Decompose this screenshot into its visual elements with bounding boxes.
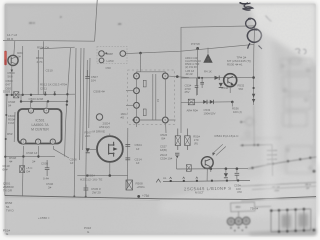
ladder node dots: [270, 208, 315, 233]
resistor C506 crosshatch below IC: [20, 166, 25, 173]
label R532: [222, 84, 245, 92]
wire long bottom: [5, 196, 316, 200]
wire mid-left bus D: [83, 48, 84, 150]
pen scribble top: [240, 3, 253, 9]
wire row2 y102: [181, 101, 232, 104]
ladder winding blobs: [282, 214, 292, 228]
warning triangle: [203, 54, 212, 63]
page curl highlight streak: [259, 18, 278, 202]
connector J dashed box: [97, 47, 127, 64]
wire top-left link: [40, 47, 75, 49]
label C528: [185, 83, 192, 94]
pencil 239: [295, 49, 306, 54]
ghost line: [240, 137, 282, 140]
diode D54: [203, 100, 207, 104]
wire Q500 up: [14, 41, 15, 56]
diode D55: [210, 100, 214, 104]
wire pin4 riser: [46, 102, 48, 108]
junction node: [139, 52, 142, 55]
resistor R502 crosshatch: [14, 92, 19, 98]
wire bus x38.3: [37, 50, 39, 95]
pin P2: [120, 51, 126, 57]
transformer ladder box: [271, 209, 311, 232]
coil L1 marks: [143, 80, 146, 87]
node on row: [198, 77, 200, 79]
dashed pointer arrow: [213, 144, 226, 155]
wire mid-left bus A: [65, 48, 71, 157]
junction dots row y101.5: [20, 100, 68, 106]
resistor R533 crosshatch: [188, 99, 194, 105]
fold crease faint: [5, 197, 160, 200]
junction dots: [210, 168, 213, 171]
wire Q530 emitter down: [229, 87, 231, 93]
capacitor C507: [85, 70, 89, 78]
ghost text 237: [290, 59, 300, 64]
wire Q500 collector down: [11, 66, 13, 95]
wire bus x22.7: [22, 46, 24, 95]
pin 2: [29, 108, 34, 113]
pin numbers: [23, 109, 54, 144]
wire mid-left bus E: [86, 60, 88, 197]
pin 4: [44, 108, 49, 113]
capacitor bank bars: [267, 150, 277, 163]
wire mid-left bus C: [80, 48, 81, 160]
pencil squiggle: [266, 16, 272, 22]
transistor Q500: [8, 55, 18, 65]
diode D56: [224, 173, 228, 177]
pen tick: [259, 46, 263, 50]
caution text block: [185, 56, 201, 69]
connector pin L2: [134, 88, 140, 94]
transistor Q530: [224, 74, 237, 87]
pin 1: [21, 139, 26, 144]
square junction nodes: [170, 180, 239, 183]
resistor R518 crosshatch: [175, 129, 180, 151]
connector pin L4: [134, 117, 140, 123]
diode D52: [215, 76, 220, 80]
arrows on right bus: [252, 94, 255, 98]
junction dots left vertical: [5, 114, 7, 116]
IC U IC501 box: [18, 109, 62, 144]
pin P3: [99, 58, 104, 63]
ground mark: [156, 179, 160, 182]
resistor R528 box: [126, 180, 133, 190]
ghost dots: [282, 65, 312, 170]
wire triangle riser: [207, 48, 209, 54]
capacitor C545: [84, 185, 89, 197]
node after R1: [176, 75, 179, 78]
wire left edge vertical: [5, 95, 7, 196]
wire x21 stub: [20, 95, 22, 102]
fold bright wedge bottom-right: [160, 163, 320, 219]
wire top vertical: [95, 0, 98, 41]
pen circle 2: [247, 29, 261, 42]
wire main row y77.8: [181, 76, 254, 79]
diode D53 down: [219, 83, 223, 87]
box outline: [231, 202, 255, 212]
wire row y181 with square nodes: [163, 181, 250, 182]
small dots below trio: [230, 226, 247, 231]
wire pin3 down: [37, 146, 39, 158]
junction node C534: [196, 47, 199, 50]
arrow on Q500 emitter: [11, 70, 13, 73]
small arrows above row dots: [44, 92, 55, 94]
coil L2 marks: [143, 109, 146, 116]
wire ghost vertical x90: [89, 58, 90, 128]
svg-text:## #: ## #: [29, 21, 35, 25]
ladder pin numbers: [136, 74, 167, 122]
wire line right bottom: [241, 197, 316, 200]
wire row y101.5: [21, 100, 67, 102]
junction dots row y94.8: [6, 93, 69, 96]
wire drop x43.5: [42, 41, 44, 94]
ghost box column right: [281, 59, 312, 72]
bottom lighter strip under fold: [5, 199, 317, 236]
Q504 emitter arrow: [113, 147, 117, 150]
node end row2: [231, 101, 234, 104]
ghost labels right bottom: [272, 183, 311, 193]
transistor Q504: [97, 136, 123, 162]
node right bus: [252, 76, 255, 79]
capacitor C504: [125, 144, 130, 146]
connector pin R5: [162, 117, 168, 123]
capacitor C505: [45, 160, 50, 176]
wire node drop: [231, 102, 233, 107]
Q504 collector dots: [113, 144, 115, 146]
wire x272 drop: [271, 145, 274, 176]
node dots: [241, 144, 243, 146]
wire y145 right: [240, 144, 272, 147]
resistor R519 crosshatch: [185, 129, 191, 151]
faint print bleed marks top: [29, 15, 122, 26]
node dots on curve: [251, 157, 311, 169]
wire ghost stub: [240, 121, 245, 123]
dashed enclosure around ladder: [128, 70, 175, 125]
label R526: [160, 133, 173, 160]
top-right out-of-focus bright corner: [248, 4, 316, 67]
label R519 value: [193, 135, 200, 146]
wire row y175.5: [77, 174, 128, 176]
wire pin1 down long: [22, 146, 23, 196]
wire pin5 diagonal: [53, 146, 69, 158]
red page-edge mark: [4, 51, 6, 65]
wire stubs: [177, 158, 237, 181]
pen tail 1: [248, 43, 250, 49]
connector pin L3: [134, 102, 140, 108]
wire trio riser: [238, 212, 240, 218]
ghost transistor circle: [246, 118, 254, 126]
wire row y156.5: [6, 155, 55, 157]
wire top-left horizontal: [3, 39, 95, 42]
pencil faint marks: [266, 16, 307, 55]
pen circle 1: [246, 18, 256, 28]
wire long curve right: [248, 157, 316, 169]
junction dots: [109, 174, 112, 177]
resistor small crosshatch: [186, 165, 191, 172]
connector pin R1: [162, 73, 168, 79]
wire row y94.8: [5, 93, 75, 96]
capacitor C514: [125, 158, 130, 160]
wire base: [87, 148, 96, 150]
node bottom left of ladder: [133, 119, 135, 121]
tick marks above nodes: [170, 177, 198, 179]
pin 3: [36, 139, 41, 144]
svg-text:##: ##: [118, 22, 122, 26]
wire drop from node: [139, 53, 141, 72]
connector circles trio: [227, 217, 250, 225]
wire emitter down: [109, 162, 111, 175]
pin 5: [50, 139, 55, 144]
wire bus continuation faint: [253, 105, 256, 145]
connector pin L1: [134, 73, 140, 79]
wire x127.8 vertical: [127, 128, 129, 188]
wire mid-left bus B: [74, 48, 76, 197]
junction dots y156.5: [22, 155, 39, 157]
wire beside IC box: [13, 112, 16, 142]
ghost vertical: [289, 60, 290, 128]
capacitor C535: [235, 173, 240, 180]
dark spot: [313, 170, 316, 173]
capacitor C528: [195, 78, 199, 96]
transistor Q503 small: [96, 114, 102, 120]
block right edge: [254, 26, 255, 105]
junction dot: [105, 52, 107, 54]
capacitor C527 electrolytic: [175, 153, 179, 155]
wire pin2 riser: [30, 102, 32, 108]
line pair y184 right: [240, 182, 316, 186]
node bus junctions on fold wire: [73, 195, 75, 197]
block boundary box: [181, 26, 255, 133]
node +75V: [137, 195, 140, 198]
capacitor C529: [200, 78, 204, 88]
ladder interconnect wires: [126, 74, 189, 133]
wire C534 drop: [196, 48, 198, 95]
transistor Q532: [201, 157, 213, 169]
diode D502 on x88: [86, 148, 90, 152]
Q530 emitter arrow: [231, 82, 234, 85]
wire row y168.9: [177, 168, 249, 170]
wire box to ladder: [255, 205, 271, 208]
bottom-right shadow edge: [248, 229, 316, 236]
label C530: [234, 183, 242, 194]
wire to big box: [126, 44, 254, 53]
wire collector up: [109, 134, 111, 137]
IC501 label: [31, 119, 49, 132]
ladder top wire: [137, 72, 166, 73]
pin P1: [99, 51, 105, 57]
